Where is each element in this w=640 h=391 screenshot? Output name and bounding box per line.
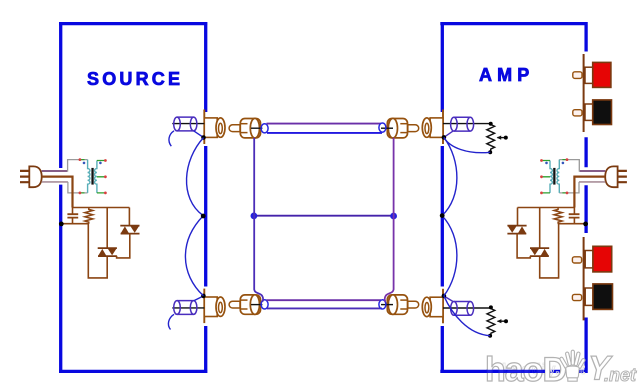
amp box top wall bbox=[440, 22, 587, 25]
node: right shield tie bbox=[390, 213, 397, 220]
wire: source chassis wavy bond bottom bbox=[185, 216, 203, 296]
wire: shield tie link bbox=[254, 215, 394, 217]
snubber top rail wire bbox=[73, 207, 130, 209]
P2 center pin lead bbox=[251, 127, 262, 129]
wire: VR1 bottom to J3 ground bbox=[444, 138, 490, 153]
P3 cable entry ring bbox=[379, 123, 386, 132]
bottom cable signal conductor bbox=[267, 299, 382, 301]
J3 center lead to pot bbox=[443, 123, 491, 125]
power plug P1 body bbox=[29, 166, 41, 187]
source box right wall (gaps at RCA jacks) bbox=[204, 22, 207, 373]
diac D2 bbox=[120, 226, 139, 234]
amp box bottom wall bbox=[440, 370, 587, 373]
binding post black (bottom) bbox=[585, 288, 593, 305]
P3 center pin lead bbox=[381, 127, 393, 129]
primary lead marks bbox=[81, 159, 85, 161]
power plug P1 prongs bbox=[20, 171, 30, 182]
post panel bottom bbox=[583, 237, 585, 320]
lug (bottom red) bbox=[572, 257, 581, 263]
RCA jack J3 (amp top) bbox=[422, 110, 443, 145]
node: J3 ground lug bbox=[442, 135, 447, 140]
P4 cable entry ring bbox=[261, 300, 268, 309]
plug P2 (top-left male RCA) bbox=[229, 118, 260, 138]
amp box right wall (gaps at posts and power cord) bbox=[584, 22, 587, 373]
wire: source chassis wavy bond top bbox=[187, 138, 204, 216]
P5 center pin lead bbox=[381, 304, 393, 306]
wire: right shield drain down bbox=[385, 138, 394, 302]
source box top wall bbox=[59, 22, 207, 25]
lug (top red) bbox=[573, 72, 582, 79]
transformer secondary taps bbox=[97, 161, 105, 193]
wall line over watermark bbox=[486, 370, 545, 373]
plug P4 (bottom-left male RCA) bbox=[229, 295, 260, 315]
wire: plug ground down to snubber rail bbox=[42, 177, 73, 208]
plug P3 (top-right male RCA) bbox=[387, 118, 418, 138]
transformer T1 core bbox=[91, 168, 93, 185]
J2 center lead bbox=[172, 307, 204, 309]
wire: amp chassis wavy bond top bbox=[442, 137, 457, 215]
svg-text:AMP: AMP bbox=[479, 65, 534, 85]
wire: amp chassis wavy bond bottom bbox=[442, 216, 457, 296]
P5 cable entry ring bbox=[379, 300, 386, 309]
node: J2 ground lug bbox=[201, 294, 206, 299]
node: chassis bond dot bbox=[59, 222, 64, 227]
amp box left wall (gaps at RCA jacks) bbox=[441, 22, 444, 373]
wire: rail to diac D2 top bbox=[128, 208, 130, 226]
binding post black (top) bbox=[585, 104, 593, 120]
binding post red (top) bbox=[585, 67, 593, 83]
node: J4 ground lug bbox=[442, 294, 447, 299]
J1 center lead bbox=[172, 123, 204, 125]
node: source chassis dot bbox=[201, 214, 206, 219]
J4 isolation sleeve bbox=[451, 302, 474, 316]
P2 cable entry ring bbox=[261, 124, 268, 133]
J3 ground lug link bbox=[444, 131, 453, 137]
lug (bottom black) bbox=[572, 294, 581, 300]
binding post red (bottom) bbox=[585, 251, 593, 268]
post panel top bbox=[583, 54, 585, 132]
J1 ground lug link bbox=[194, 131, 204, 138]
J1 shield pigtail (floating) bbox=[169, 131, 174, 146]
wire: rail to diac D1 top bbox=[106, 208, 108, 249]
potentiometer VR1 bbox=[487, 125, 506, 153]
wire: loop to diac D1 bbox=[88, 224, 107, 278]
svg-text:.net: .net bbox=[604, 365, 637, 385]
wire: VR2 bottom to J4 ground bbox=[444, 296, 490, 336]
svg-text:SOURCE: SOURCE bbox=[87, 69, 183, 89]
J2 isolation sleeve bbox=[174, 301, 197, 315]
source box bottom wall bbox=[59, 370, 207, 373]
top cable signal conductor bbox=[267, 123, 382, 125]
source box left wall (gap for power cord) bbox=[59, 22, 62, 373]
capacitor C1 bbox=[72, 208, 74, 214]
J4 center lead to pot bbox=[443, 307, 491, 309]
wire: chassis bond rail bbox=[61, 223, 89, 225]
node: J1 ground lug bbox=[201, 135, 206, 140]
bottom cable return conductor bbox=[267, 307, 382, 309]
J2 ground lug link bbox=[194, 296, 204, 301]
resistor R1 bbox=[85, 208, 93, 224]
lug (top black) bbox=[573, 110, 582, 116]
top cable return conductor bbox=[267, 132, 382, 134]
wire: plug neutral to transformer primary bottom bbox=[42, 181, 68, 183]
wire: diac D2 bottom link bbox=[117, 234, 130, 258]
J3 isolation sleeve bbox=[451, 117, 474, 131]
J1 isolation sleeve bbox=[174, 117, 197, 131]
node: left shield tie bbox=[251, 213, 258, 220]
J4 ground lug link bbox=[444, 296, 453, 302]
transformer T1 primary winding bbox=[88, 160, 90, 193]
RCA jack J4 (amp bottom) bbox=[422, 289, 443, 324]
P4 center pin lead bbox=[251, 304, 262, 306]
node: amp chassis dot bbox=[440, 213, 445, 218]
potentiometer VR2 bbox=[487, 309, 506, 336]
transformer T1 secondary winding bbox=[95, 161, 97, 193]
RCA jack J1 (source top) bbox=[204, 110, 225, 145]
hand glyph bbox=[559, 350, 585, 381]
RCA jack J2 (source bottom) bbox=[204, 289, 225, 324]
wire: plug hot to transformer primary top bbox=[42, 170, 68, 172]
J2 shield pigtail (floating) bbox=[168, 314, 174, 329]
transformer phase dots bbox=[83, 162, 86, 165]
wire: left shield drain down bbox=[254, 138, 263, 302]
plug P5 (bottom-right male RCA) bbox=[387, 295, 418, 315]
diac D1 bbox=[98, 248, 117, 256]
